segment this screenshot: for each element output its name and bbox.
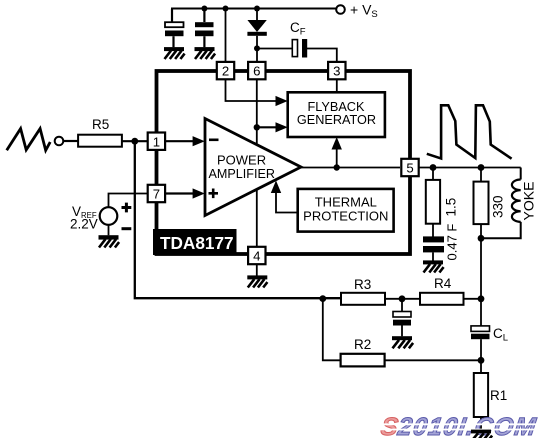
resistor 1.5 [426,168,459,224]
capacitor ceramic at +Vs [195,9,214,47]
arrow into plus input [193,188,205,198]
arrow into flyback (lower) [276,122,288,132]
node (pin2 supply junction) [223,6,229,12]
ground (R1) [471,430,492,438]
watermark s2010i.com [378,413,538,438]
arrow up into amplifier [271,181,281,194]
svg-text:0.47 F: 0.47 F [445,224,460,261]
sawtooth input waveform [7,129,51,151]
svg-text:R4: R4 [434,276,452,291]
inductor YOKE [481,168,537,239]
svg-text:THERMAL: THERMAL [315,194,377,209]
resistor 330 [474,168,506,239]
wire feedback from input node [135,141,341,298]
wire R4 right [464,298,482,300]
node (cap2 junction) [201,6,207,12]
svg-text:1.5: 1.5 [444,198,459,217]
ground (filter cap) [392,336,413,348]
svg-text:330: 330 [491,195,506,218]
pin 6 [248,62,265,79]
capacitor CF [257,20,337,62]
node (diode junction) [254,6,260,12]
svg-text:2010I.COM: 2010I.COM [395,413,538,438]
wire R3 to R4 [385,298,420,300]
node (input feedback tee) [131,138,138,145]
pin 4 [248,247,265,264]
svg-text:5: 5 [406,161,413,176]
svg-text:R1: R1 [490,388,507,403]
svg-text:FLYBACK: FLYBACK [308,100,365,114]
wire pin7 to amplifier plus [166,192,196,194]
svg-text:4: 4 [253,249,260,264]
arrow up into flyback bottom [332,137,342,150]
wire Vref to ground [108,225,110,236]
ground (0.47uF) [423,260,444,272]
capacitor electrolytic at +Vs [165,9,184,47]
resistor R2 [341,337,385,366]
thermal protection box [298,189,394,232]
wire pin2 to flyback input [226,78,278,101]
svg-text:6: 6 [253,63,260,78]
wire tee to flyback lower input [257,126,277,128]
pin 1 [148,133,165,150]
node (R2 tee) [319,295,326,302]
wire pin3 into flyback top [336,78,338,92]
wire thermal protection to amplifier [276,193,298,213]
svg-text:POWER: POWER [217,153,266,168]
wire R2 to CL node [385,359,481,361]
wire pin1 to amplifier minus [166,140,196,142]
source Vref 2.2V [70,203,131,232]
svg-text:2.2V: 2.2V [70,217,98,232]
resistor R4 [420,276,464,305]
resistor R1 [474,360,507,429]
wire terminal to R5 [63,140,78,142]
wire pin4 to ground [256,264,258,275]
svg-text:AMPLIFIER: AMPLIFIER [209,167,275,181]
node (CF junction) [254,45,260,51]
svg-text:PROTECTION: PROTECTION [303,209,388,224]
wire pin5 to yoke [419,167,521,169]
pin 7 [148,185,165,202]
terminal +Vs [336,2,378,21]
svg-text:7: 7 [153,187,160,202]
svg-text:R2: R2 [354,337,371,352]
svg-text:1: 1 [153,134,160,149]
wire R5 to pin1 [122,140,147,142]
node (yoke bottom tee) [478,235,485,242]
ground (ceramic cap) [195,47,216,59]
node (flyback lower input tee) [254,124,260,130]
TDA8177 label [153,229,237,255]
node (330 ohm tee) [478,164,485,171]
capacitor (R3/R4 filter) [393,299,411,337]
resistor R3 [341,277,385,305]
pin 3 [328,62,345,79]
svg-text:GENERATOR: GENERATOR [297,113,376,127]
node (flyback feedback tee) [334,164,340,170]
node (filter cap tee) [399,295,406,302]
resistor R5 [78,117,122,147]
input terminal [55,137,64,146]
svg-text:2: 2 [222,63,229,78]
capacitor 0.47uF [423,224,460,261]
op-amp power amplifier [205,119,301,216]
output deflection waveform [427,105,512,158]
ground (electrolytic cap) [164,47,185,59]
svg-text:YOKE: YOKE [521,182,537,221]
svg-text:R5: R5 [92,117,109,132]
wire pin7 to Vref [109,194,148,208]
wire R2 branch [323,299,341,361]
wire yoke node down [480,238,482,299]
pin 5 [401,159,418,176]
wire output to pin 5 [301,167,400,169]
ground (pin 4) [247,275,267,287]
flyback generator box [288,92,385,137]
node (CL bottom tee) [478,357,485,364]
wire pin6 down to pin4 [256,78,258,247]
arrow into flyback (upper) [276,96,288,106]
node (R4 right tee) [478,295,485,302]
svg-text:R3: R3 [354,277,371,292]
diode D1 [247,9,266,62]
capacitor CL [471,299,508,361]
wire tee up to flyback bottom [336,148,338,168]
svg-text:3: 3 [333,63,340,78]
wire top supply rail [171,8,336,10]
svg-text:TDA8177: TDA8177 [160,233,234,253]
wire rail to pin 2 [225,9,227,62]
node (1.5 ohm tee) [430,164,437,171]
ground (Vref) [99,235,120,247]
IC TDA8177 outline [157,71,411,254]
pin 2 [217,62,234,79]
arrow into minus input [193,136,205,146]
